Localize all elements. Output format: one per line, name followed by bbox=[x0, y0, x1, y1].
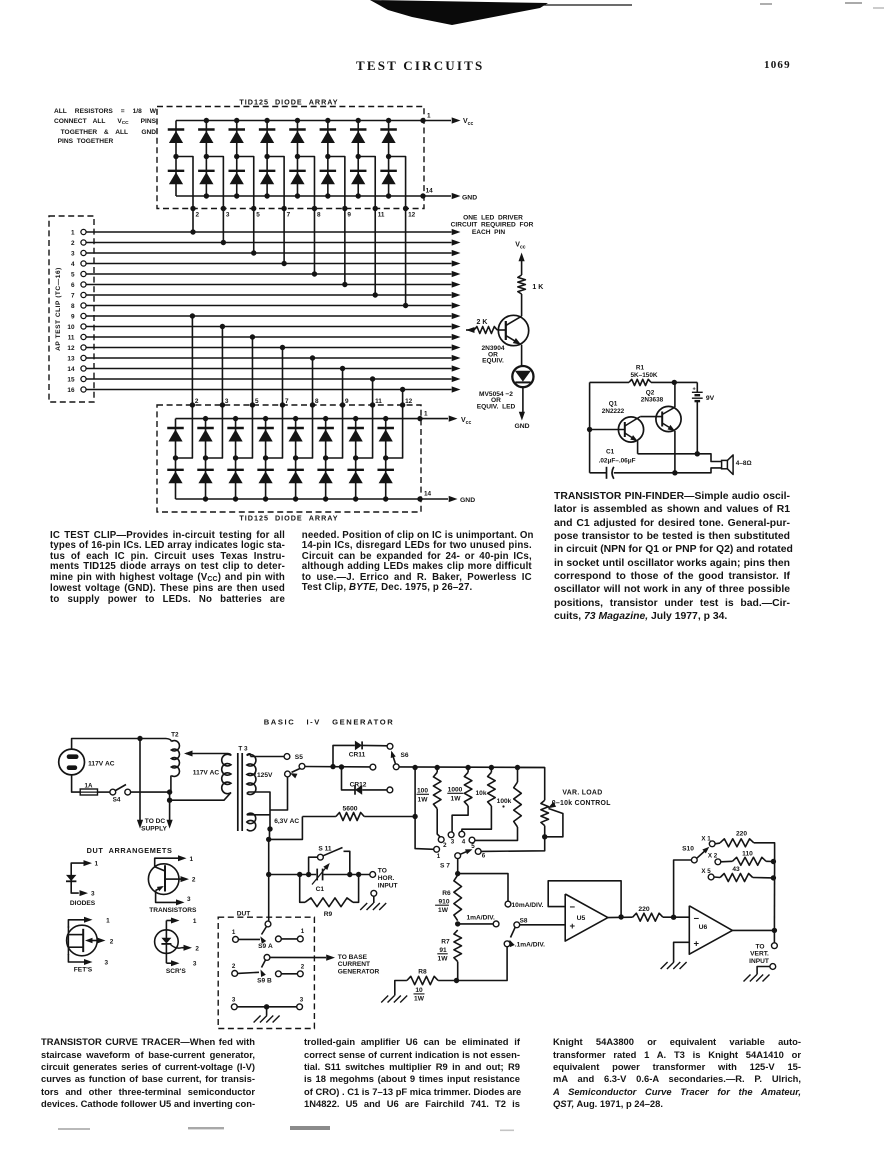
diode pair column 1 (top array) bbox=[175, 121, 177, 197]
svg-text:U6: U6 bbox=[699, 924, 708, 931]
svg-text:INPUT: INPUT bbox=[378, 883, 398, 890]
ground (U6) bbox=[661, 962, 668, 969]
svg-text:R7: R7 bbox=[441, 938, 450, 945]
arrow down to GND (LED driver) bbox=[519, 412, 525, 421]
svg-text:1W: 1W bbox=[451, 795, 462, 802]
junction pin 1 (top array) bbox=[420, 118, 425, 123]
svg-text:3: 3 bbox=[232, 996, 236, 1003]
resistor R8 10 1W bbox=[407, 976, 438, 984]
svg-text:S9 A: S9 A bbox=[258, 943, 273, 950]
wire jog to pin 5 (bottom array) bbox=[236, 405, 253, 458]
svg-text:S5: S5 bbox=[295, 754, 303, 761]
svg-text:1: 1 bbox=[424, 411, 428, 418]
svg-text:3: 3 bbox=[187, 896, 191, 903]
pin 7 junction (top array) bbox=[281, 206, 286, 211]
svg-text:1W: 1W bbox=[414, 996, 425, 1003]
svg-text:CR12: CR12 bbox=[350, 782, 367, 789]
svg-text:1A: 1A bbox=[85, 783, 93, 790]
pin 12 junction (bottom array) bbox=[400, 402, 405, 407]
variac wiper arrow into T2 bbox=[186, 753, 228, 755]
svg-text:5K–150K: 5K–150K bbox=[630, 372, 657, 379]
svg-text:11: 11 bbox=[68, 334, 75, 341]
junction on clip line 6 bbox=[342, 282, 347, 287]
svg-text:R8: R8 bbox=[418, 968, 427, 975]
node mid column 6 (bottom array) bbox=[323, 455, 328, 460]
ground (HOR input) bbox=[360, 903, 367, 910]
wire to 1mA terminal bbox=[458, 923, 494, 925]
junction S11 block tap bbox=[266, 872, 271, 877]
switch S7 contact 2 bbox=[438, 837, 444, 843]
wire clip line 14 bbox=[86, 368, 451, 370]
svg-text:S 7: S 7 bbox=[440, 863, 450, 870]
wire 5600 node down to S7 contact 1 bbox=[415, 768, 434, 850]
arrow clip line 15 bbox=[452, 376, 461, 382]
arrow clip line 13 bbox=[452, 355, 461, 361]
wire to GND (top array) bbox=[423, 195, 451, 197]
arrow clip line 7 bbox=[452, 292, 461, 298]
svg-text:4: 4 bbox=[462, 838, 466, 845]
diode CR11 bbox=[333, 745, 355, 766]
wire bottom left (pin-finder) bbox=[590, 472, 607, 474]
wire jog to pin 9 (bottom array) bbox=[326, 405, 343, 458]
arrow clip line 12 bbox=[452, 344, 461, 350]
junction on clip line 4 bbox=[281, 261, 286, 266]
svg-text:7: 7 bbox=[71, 292, 75, 299]
svg-text:43: 43 bbox=[732, 866, 740, 873]
arrow clip line 16 bbox=[452, 386, 461, 392]
svg-text:INPUT: INPUT bbox=[749, 958, 769, 965]
node mid column 4 (top array) bbox=[264, 154, 269, 159]
wire jog to pin 7 (bottom array) bbox=[266, 405, 283, 458]
svg-text:2: 2 bbox=[192, 877, 196, 884]
svg-text:EQUIV. LED: EQUIV. LED bbox=[477, 403, 516, 410]
switch S7 contact 1 bbox=[434, 846, 440, 852]
svg-text:7: 7 bbox=[285, 398, 289, 405]
svg-text:GND: GND bbox=[514, 423, 529, 430]
wire clip line 10 bbox=[86, 326, 451, 328]
svg-text:910: 910 bbox=[438, 898, 449, 905]
svg-text:3: 3 bbox=[91, 890, 95, 897]
arrow clip line 10 bbox=[452, 323, 461, 329]
svg-text:5: 5 bbox=[255, 398, 259, 405]
wire clip line 5 bbox=[86, 273, 451, 275]
resistor 5600 bbox=[302, 816, 336, 818]
node mid column 4 (bottom array) bbox=[263, 455, 268, 460]
switch S9A left contact 1 bbox=[233, 937, 239, 943]
wire clip line 8 bbox=[86, 305, 451, 307]
svg-text:DIODES: DIODES bbox=[70, 900, 96, 907]
svg-text:3: 3 bbox=[105, 960, 109, 967]
wire clip line 12 bbox=[86, 347, 451, 349]
svg-text:9V: 9V bbox=[706, 395, 715, 402]
wire left rail (pin-finder) bbox=[589, 382, 591, 472]
pin 11 junction (top array) bbox=[373, 206, 378, 211]
svg-text:2N2222: 2N2222 bbox=[602, 408, 625, 415]
svg-text:3: 3 bbox=[300, 996, 304, 1003]
svg-text:.02μF–.06μF: .02μF–.06μF bbox=[599, 458, 636, 465]
svg-text:8: 8 bbox=[317, 212, 321, 219]
junction Q2 collector / top rail bbox=[672, 380, 677, 385]
svg-text:Vcc: Vcc bbox=[515, 242, 525, 251]
svg-text:1mA/DIV.: 1mA/DIV. bbox=[467, 915, 496, 922]
resistor R1 bbox=[629, 379, 651, 385]
wire output rail down bbox=[773, 860, 775, 930]
svg-text:EQUIV.: EQUIV. bbox=[482, 358, 504, 365]
junction 6.3V / DUT rail bbox=[266, 837, 271, 842]
svg-text:2: 2 bbox=[71, 240, 75, 247]
switch S5 bbox=[284, 754, 290, 760]
pin 3 junction (bottom array) bbox=[220, 402, 225, 407]
wire fuse to S4 bbox=[98, 791, 110, 793]
wire clip line 15 bbox=[86, 378, 451, 380]
wire Vcc rail (bottom array) bbox=[176, 418, 422, 420]
svg-text:4: 4 bbox=[71, 261, 75, 268]
wire GND rail (top array) bbox=[176, 195, 424, 197]
svg-text:3: 3 bbox=[71, 250, 75, 257]
svg-text:9: 9 bbox=[71, 313, 75, 320]
node mid column 3 (top array) bbox=[234, 154, 239, 159]
junction X5 / rail bbox=[771, 875, 776, 880]
wire pin 9 down to clip line 6 bbox=[344, 209, 346, 285]
wire jog to pin 2 (bottom array) bbox=[176, 405, 193, 458]
svg-text:S6: S6 bbox=[401, 752, 409, 759]
junction on clip line 10 bbox=[220, 324, 225, 329]
svg-text:117V AC: 117V AC bbox=[88, 760, 115, 767]
DUT dashed outline bbox=[218, 917, 314, 1028]
resistor 100 1W bbox=[433, 772, 441, 808]
arrow clip line 2 bbox=[452, 239, 461, 245]
svg-text:100k: 100k bbox=[497, 798, 512, 805]
svg-text:3: 3 bbox=[193, 961, 197, 968]
junction on clip line 7 bbox=[373, 292, 378, 297]
svg-text:CR11: CR11 bbox=[349, 751, 366, 758]
resistor 1K bbox=[518, 275, 526, 294]
arrow to DC supply (left) bbox=[139, 739, 141, 821]
junction on clip line 16 bbox=[400, 387, 405, 392]
svg-text:14: 14 bbox=[67, 366, 75, 373]
svg-text:TID125 DIODE ARRAY: TID125 DIODE ARRAY bbox=[239, 514, 338, 523]
wire S8 to U5 + input bbox=[520, 924, 566, 926]
svg-text:Q1: Q1 bbox=[609, 401, 618, 408]
wire X1 to output rail bbox=[754, 843, 775, 860]
svg-text:1: 1 bbox=[106, 917, 110, 924]
svg-text:91: 91 bbox=[439, 947, 447, 954]
svg-text:2: 2 bbox=[195, 398, 199, 405]
wire LED to GND bbox=[522, 387, 524, 412]
svg-text:S8: S8 bbox=[520, 917, 528, 924]
svg-text:S10: S10 bbox=[682, 845, 694, 852]
resistor 110 (X2) bbox=[721, 860, 733, 863]
node mid column 7 (top array) bbox=[356, 154, 361, 159]
arrow clip line 5 bbox=[452, 271, 461, 277]
wire 6.3V node to 5600 bbox=[269, 817, 303, 840]
svg-text:5: 5 bbox=[471, 843, 475, 850]
junction pot bottom / wiper bbox=[542, 834, 547, 839]
junction R9 branch right bbox=[356, 872, 361, 877]
wire pin 12 down to clip line 8 bbox=[405, 209, 407, 306]
LED MV5054-2 bbox=[512, 366, 533, 387]
wire to .1mA tap bbox=[457, 947, 508, 981]
node mid column 8 (top array) bbox=[386, 154, 391, 159]
svg-text:C1: C1 bbox=[606, 449, 615, 456]
transistor 2N3904 bbox=[498, 315, 528, 345]
junction R7/R8 bbox=[454, 978, 459, 983]
wire jog to pin 12 (bottom array) bbox=[386, 405, 403, 458]
junction CR11 branch bbox=[330, 764, 335, 769]
legend transistor symbol bbox=[148, 864, 179, 895]
wire U5 feedback bbox=[548, 881, 621, 917]
diode pair column 2 (bottom array) bbox=[205, 419, 207, 499]
pin 5 junction (top array) bbox=[251, 206, 256, 211]
arrow clip line 3 bbox=[452, 250, 461, 256]
resistor 220 (U5-U6) bbox=[633, 913, 663, 921]
junction row 3 ground tap bbox=[264, 1004, 269, 1009]
junction Q2 emitter / bottom wire bbox=[672, 470, 677, 475]
wire R100k to S7 contact 5 bbox=[475, 827, 517, 840]
wire S6 to resistor bank bus bbox=[399, 766, 545, 769]
wire clip line 11 bbox=[86, 336, 451, 338]
node mid column 2 (bottom array) bbox=[203, 455, 208, 460]
switch S7 contact 5 bbox=[469, 837, 475, 843]
svg-text:1W: 1W bbox=[438, 956, 449, 963]
pot wiper arm bbox=[548, 802, 556, 808]
svg-text:1: 1 bbox=[301, 928, 305, 935]
wire clip line 6 bbox=[86, 284, 451, 286]
diode pair column 5 (bottom array) bbox=[295, 419, 297, 499]
svg-text:2 K: 2 K bbox=[477, 319, 488, 326]
svg-text:S9 B: S9 B bbox=[257, 978, 272, 985]
svg-text:Vcc: Vcc bbox=[461, 417, 471, 426]
svg-text:10: 10 bbox=[67, 324, 75, 331]
wire jog to pin 8 (top array) bbox=[297, 157, 314, 209]
junction on clip line 2 bbox=[221, 240, 226, 245]
svg-text:2N3638: 2N3638 bbox=[641, 397, 664, 404]
svg-text:110: 110 bbox=[742, 851, 753, 858]
svg-text:T 3: T 3 bbox=[238, 746, 248, 753]
svg-text:1: 1 bbox=[437, 853, 441, 860]
switch S10 bbox=[691, 857, 697, 863]
svg-text:VAR. LOAD: VAR. LOAD bbox=[562, 789, 602, 796]
svg-text:ONE LED DRIVER: ONE LED DRIVER bbox=[463, 214, 523, 221]
junction S7 wiper / R6 bbox=[455, 871, 460, 876]
wire Q emitter to LED bbox=[521, 345, 523, 366]
junction 6.3V bottom bbox=[267, 826, 272, 831]
svg-text:TO DC: TO DC bbox=[145, 818, 166, 825]
arrow Vcc (bottom array) bbox=[449, 416, 458, 422]
wire S5 bottom down to 125V return bbox=[270, 777, 288, 810]
junction bus / R100k bbox=[515, 765, 520, 770]
wire R8 to ground bbox=[395, 981, 407, 996]
arrow clip line 1 bbox=[452, 229, 461, 235]
wire pin 5 up to clip line 11 bbox=[251, 337, 253, 405]
junction on clip line 1 bbox=[190, 229, 195, 234]
svg-text:EACH PIN: EACH PIN bbox=[472, 229, 506, 236]
wire pin 5 down to clip line 3 bbox=[253, 209, 255, 254]
svg-text:117V AC: 117V AC bbox=[193, 769, 220, 776]
terminal TO VERT INPUT signal bbox=[773, 930, 775, 942]
junction pin 14 (bottom array) bbox=[417, 496, 422, 501]
node mid column 1 (bottom array) bbox=[173, 455, 178, 460]
svg-text:TO: TO bbox=[378, 868, 387, 875]
arrow up to Vcc (LED driver) bbox=[519, 253, 525, 262]
wire pin 2 up to clip line 9 bbox=[191, 316, 193, 405]
svg-text:1: 1 bbox=[193, 918, 197, 925]
diode pair column 3 (bottom array) bbox=[235, 419, 237, 499]
wire R 1K to Q collector bbox=[521, 294, 523, 316]
wire pin 8 down to clip line 5 bbox=[313, 209, 315, 275]
pin 8 junction (top array) bbox=[312, 206, 317, 211]
junction to DC supply tap bbox=[137, 736, 142, 741]
junction on clip line 9 bbox=[190, 313, 195, 318]
speaker 4-8 ohm bbox=[722, 460, 728, 468]
wire pin 11 up to clip line 15 bbox=[372, 379, 374, 405]
wire U6 + to ground bbox=[674, 942, 690, 962]
diode pair column 7 (bottom array) bbox=[355, 419, 357, 499]
junction bus / S7-1 drop bbox=[412, 765, 417, 770]
switch S9B common bbox=[264, 955, 270, 961]
node mid column 6 (top array) bbox=[325, 154, 330, 159]
arrow clip line 8 bbox=[452, 302, 461, 308]
svg-text:T2: T2 bbox=[171, 732, 179, 739]
node mid column 7 (bottom array) bbox=[353, 455, 358, 460]
svg-text:7: 7 bbox=[287, 212, 291, 219]
svg-text:1: 1 bbox=[71, 229, 75, 236]
svg-text:GND: GND bbox=[460, 497, 475, 504]
arrow to DC supply (right) bbox=[169, 792, 171, 820]
svg-text:6,3V AC: 6,3V AC bbox=[274, 818, 299, 825]
pin 11 junction (bottom array) bbox=[370, 402, 375, 407]
pin 9 junction (top array) bbox=[342, 206, 347, 211]
node mid column 5 (bottom array) bbox=[293, 455, 298, 460]
wire to S11 block bbox=[269, 874, 317, 876]
svg-text:U5: U5 bbox=[577, 915, 586, 922]
wire battery to speaker bbox=[638, 454, 722, 462]
wire 220 to U6 bbox=[663, 916, 689, 918]
svg-text:TO: TO bbox=[755, 943, 764, 950]
junction bus / R1000 bbox=[465, 765, 470, 770]
wire jog to pin 11 (top array) bbox=[358, 157, 375, 209]
arrow clip line 11 bbox=[452, 334, 461, 340]
svg-text:X 2: X 2 bbox=[708, 853, 718, 860]
wire bottom right (pin-finder) bbox=[614, 468, 722, 473]
diode CR12 bbox=[342, 767, 356, 790]
wire clip line 1 bbox=[86, 231, 451, 233]
node mid column 3 (bottom array) bbox=[233, 455, 238, 460]
pin 8 junction (bottom array) bbox=[310, 402, 315, 407]
svg-text:11: 11 bbox=[375, 398, 382, 405]
wire pin 3 up to clip line 10 bbox=[221, 327, 223, 406]
svg-text:5: 5 bbox=[256, 212, 260, 219]
pin 9 junction (bottom array) bbox=[340, 402, 345, 407]
wire 125V top to S5 bbox=[251, 756, 284, 758]
svg-text:CIRCUIT REQUIRED FOR: CIRCUIT REQUIRED FOR bbox=[451, 222, 534, 229]
gain contact X5 bbox=[708, 874, 714, 880]
resistor R9 bbox=[300, 875, 305, 903]
diode pair column 8 (top array) bbox=[388, 121, 390, 197]
pin 7 junction (bottom array) bbox=[280, 402, 285, 407]
wire clip line 9 bbox=[86, 315, 451, 317]
svg-text:16: 16 bbox=[67, 387, 75, 394]
DUT row 3 right terminal bbox=[297, 1004, 303, 1010]
svg-text:−: − bbox=[694, 914, 700, 925]
svg-text:BASIC I-V GENERATOR: BASIC I-V GENERATOR bbox=[264, 718, 395, 727]
junction on clip line 13 bbox=[310, 355, 315, 360]
svg-text:1000: 1000 bbox=[448, 787, 463, 794]
diode pair column 8 (bottom array) bbox=[385, 419, 387, 499]
junction pin 1 (bottom array) bbox=[417, 416, 422, 421]
svg-text:TO BASE: TO BASE bbox=[338, 954, 368, 961]
svg-text:13: 13 bbox=[67, 355, 75, 362]
wire 6.3V rail down to S11 block bbox=[269, 829, 271, 839]
junction U5 output bbox=[618, 914, 623, 919]
svg-text:10: 10 bbox=[415, 987, 423, 994]
arrow GND (top array) bbox=[452, 193, 461, 199]
junction bus / R10k bbox=[489, 765, 494, 770]
svg-text:1: 1 bbox=[427, 113, 431, 120]
arrow clip line 6 bbox=[452, 281, 461, 287]
switch S9A common bbox=[265, 921, 271, 927]
wire to Vcc (bottom array) bbox=[420, 418, 448, 420]
wire top rail (pin-finder) bbox=[590, 381, 629, 383]
switch S9B left contact 2 bbox=[232, 971, 238, 977]
wire to GND (bottom array) bbox=[420, 498, 448, 500]
junction CR12 branch bbox=[339, 764, 344, 769]
svg-text:R9: R9 bbox=[324, 911, 333, 918]
svg-text:SUPPLY: SUPPLY bbox=[141, 826, 167, 833]
junction 5600 / S7-1 wire bbox=[412, 814, 417, 819]
junction T2 bottom bbox=[167, 789, 172, 794]
wire jog to pin 3 (bottom array) bbox=[206, 405, 223, 458]
wire pin 2 down to clip line 1 bbox=[192, 209, 194, 233]
junction R6/R7 1mA tap bbox=[455, 921, 460, 926]
diode pair column 4 (top array) bbox=[266, 121, 268, 197]
wire DUT row 3 bbox=[237, 1006, 297, 1008]
wire jog to pin 8 (bottom array) bbox=[296, 405, 313, 458]
diode pair column 6 (top array) bbox=[327, 121, 329, 197]
svg-text:6: 6 bbox=[482, 853, 486, 860]
svg-text:−: − bbox=[570, 902, 576, 913]
svg-text:12: 12 bbox=[405, 398, 413, 405]
svg-text:+: + bbox=[570, 921, 576, 932]
wire pot to S7 contact 6 bbox=[481, 826, 545, 852]
resistor 1000 1W bbox=[464, 772, 472, 806]
switch S8 bbox=[514, 922, 520, 928]
svg-text:5: 5 bbox=[71, 271, 75, 278]
switch S7 contact 4 bbox=[459, 831, 465, 837]
junction bus / R100 bbox=[435, 765, 440, 770]
svg-text:9: 9 bbox=[345, 398, 349, 405]
wire R100 to S7 contact 2 bbox=[437, 809, 440, 837]
battery 9V bbox=[696, 382, 698, 392]
svg-text:1W: 1W bbox=[438, 907, 449, 914]
switch S9A wiper bbox=[262, 927, 267, 935]
resistor 220 (X1) bbox=[715, 842, 720, 845]
wire U6 output bbox=[732, 929, 774, 931]
gain contact X1 bbox=[709, 841, 715, 847]
svg-text:+: + bbox=[693, 386, 696, 392]
svg-text:14: 14 bbox=[426, 188, 434, 195]
wire 125V bottom return bbox=[247, 792, 270, 829]
svg-text:AP TEST CLIP (TC—16): AP TEST CLIP (TC—16) bbox=[55, 267, 62, 351]
switch S9B wiper bbox=[262, 960, 266, 968]
arrow GND (bottom array) bbox=[449, 496, 458, 502]
capacitor C1 bbox=[606, 467, 608, 479]
svg-text:3: 3 bbox=[225, 398, 229, 405]
svg-text:TRANSISTORS: TRANSISTORS bbox=[149, 907, 197, 914]
wire pin 12 up to clip line 16 bbox=[402, 390, 404, 406]
svg-text:100: 100 bbox=[417, 788, 428, 795]
arrow clip line 9 bbox=[452, 313, 461, 319]
